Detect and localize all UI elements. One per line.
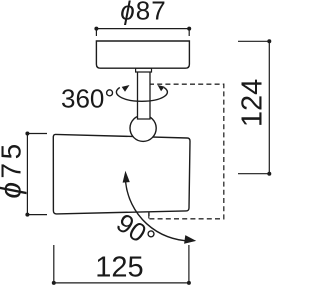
dim phi75: line, dots, ticks [27, 134, 47, 215]
stem [138, 70, 151, 119]
lamp body (cylinder side view) [53, 134, 190, 214]
stem collar [136, 68, 152, 72]
svg-text:ϕ87: ϕ87 [120, 0, 166, 26]
ball joint [130, 115, 156, 141]
dim 125: line, dots, ticks [54, 245, 189, 283]
svg-text:ϕ75: ϕ75 [0, 140, 28, 198]
360-degree rotation ellipse arc [116, 88, 167, 102]
rotation arrowhead left [122, 85, 130, 92]
canopy [96, 41, 189, 68]
dashed rotated-body outline [149, 84, 224, 219]
svg-text:360°: 360° [61, 84, 115, 114]
svg-text:125: 125 [95, 251, 143, 283]
rotation arrowhead right [158, 85, 165, 91]
dim phi87: line, dots, ticks [96, 29, 189, 36]
90-degree swing arc [126, 182, 190, 241]
swing arrowhead up [123, 171, 130, 183]
svg-text:90°: 90° [111, 207, 160, 254]
dashed-left-edge fragment under body [148, 212, 150, 219]
dim 124: line, dots, ticks [238, 41, 269, 173]
swing arrowhead right [184, 235, 196, 244]
svg-text:124: 124 [237, 79, 269, 127]
